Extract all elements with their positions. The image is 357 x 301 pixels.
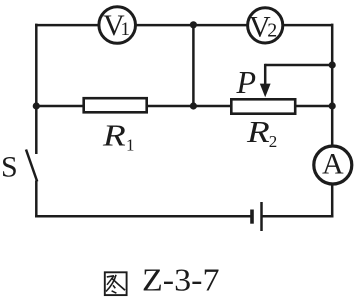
svg-text:2: 2 bbox=[267, 19, 277, 41]
svg-text:1: 1 bbox=[121, 19, 131, 40]
svg-text:1: 1 bbox=[126, 136, 135, 155]
svg-text:P: P bbox=[236, 64, 257, 100]
svg-text:A: A bbox=[322, 147, 344, 180]
svg-text:R: R bbox=[102, 118, 126, 152]
svg-text:Z-3-7: Z-3-7 bbox=[142, 261, 220, 297]
svg-text:S: S bbox=[1, 150, 18, 183]
svg-text:R: R bbox=[246, 115, 270, 149]
svg-text:2: 2 bbox=[269, 132, 278, 151]
